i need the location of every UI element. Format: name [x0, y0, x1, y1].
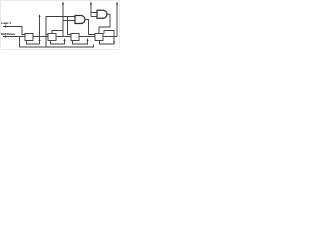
svg-text:Logic 1: Logic 1: [1, 21, 11, 25]
svg-text:Shift Pulses: Shift Pulses: [1, 32, 16, 36]
